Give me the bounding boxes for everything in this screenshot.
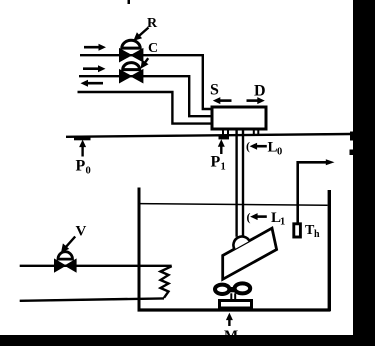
svg-text:M: M <box>224 328 238 344</box>
valve R <box>120 40 143 61</box>
speck: scan mark top centre <box>128 0 131 4</box>
node: P1 pressure tap tick <box>219 136 230 140</box>
svg-text:V: V <box>76 224 87 240</box>
wire: datum/reference line <box>66 134 350 137</box>
thermometer Th bulb <box>294 224 301 237</box>
svg-text:P: P <box>76 158 86 175</box>
svg-text:0: 0 <box>86 166 91 177</box>
arrow: D stroke (right) <box>247 97 265 104</box>
feet: left tab pair under box <box>223 131 228 135</box>
wire: thermometer signal with right arrow <box>298 159 335 222</box>
valve V <box>55 252 77 272</box>
liquid level line <box>141 204 328 206</box>
arrow: flow right on line 2 <box>83 65 106 72</box>
label L0 with hook <box>246 139 282 158</box>
arrow: flow right on line 1 <box>84 44 106 51</box>
propeller hub <box>229 287 235 292</box>
svg-text:1: 1 <box>280 217 285 228</box>
shaft: motor to propeller <box>231 293 235 300</box>
label fragment at right edge (cut letter T) <box>350 150 354 156</box>
wire: supply line 2 <box>79 76 211 116</box>
arrow: P0 up <box>79 140 86 157</box>
arrow: pointer to valve V <box>61 237 75 253</box>
label P1 <box>211 154 226 173</box>
motor M box <box>220 301 252 309</box>
svg-text:P: P <box>211 154 221 171</box>
arrow: pointer to valve R <box>133 28 148 41</box>
node: P0 pressure tap tick <box>74 137 91 140</box>
arrow: S stroke (left) <box>213 97 232 104</box>
arrow: L0 left <box>250 143 267 150</box>
label P0 <box>76 158 91 177</box>
propeller: right blade <box>235 283 251 293</box>
label L1 with hook <box>247 210 286 228</box>
dome: shaft-to-plate joint <box>233 236 249 249</box>
wire: hot supply line 1 (top) <box>80 55 211 109</box>
tank: bottom <box>138 308 331 311</box>
arrow: P1 up <box>218 139 225 154</box>
wire: heating supply pipe through valve V <box>20 265 172 267</box>
svg-text:(: ( <box>247 210 251 224</box>
svg-text:1: 1 <box>221 162 226 173</box>
box: measuring cylinder/bellows unit <box>212 107 266 129</box>
valve C <box>120 63 143 83</box>
svg-text:C: C <box>148 41 158 56</box>
propeller: left blade <box>215 285 229 294</box>
label fragment at right edge (cut letter P) <box>350 132 353 141</box>
svg-text:S: S <box>210 82 219 99</box>
svg-text:h: h <box>314 229 320 240</box>
arrow: M up <box>226 313 233 326</box>
arrow: flow left on line 3 <box>81 80 104 87</box>
wire: return line 3 <box>78 92 211 124</box>
svg-text:(: ( <box>246 139 250 153</box>
arrow: pointer to valve C <box>141 58 149 69</box>
svg-text:D: D <box>254 83 266 100</box>
svg-text:L: L <box>268 140 278 156</box>
feet: right tab pair under box <box>254 131 258 135</box>
label Th <box>305 223 320 240</box>
arrow: L1 left <box>250 213 267 220</box>
tank: right wall <box>328 190 331 311</box>
heating coil (zigzag) <box>161 266 172 298</box>
tank: left wall <box>138 188 141 312</box>
svg-text:0: 0 <box>277 147 282 158</box>
wire: heating return pipe <box>20 298 164 300</box>
vane: tilted plate on shaft <box>223 228 277 279</box>
shaft: stirrer shaft (two lines) <box>237 131 243 237</box>
